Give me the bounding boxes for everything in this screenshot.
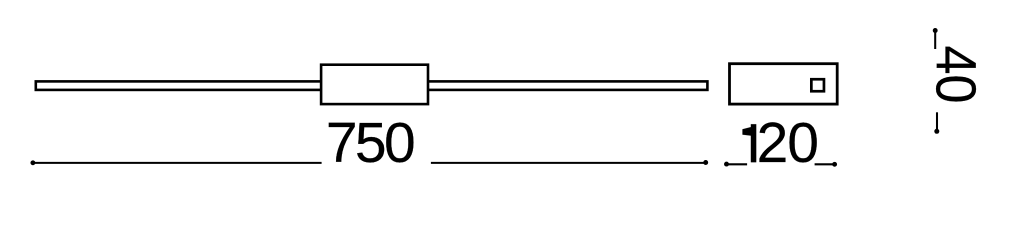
tube body (long thin bar, front view): [36, 81, 708, 90]
end-view rectangle: [730, 64, 838, 104]
dimension 750: left line segment: [33, 162, 322, 164]
dimension 120: right line segment: [815, 163, 835, 165]
dimension 120: left end dot: [724, 162, 729, 167]
dimension 40: top end dot: [933, 28, 938, 33]
svg-text:750: 750: [326, 111, 416, 175]
svg-text:20: 20: [757, 111, 819, 175]
dimension 40: bottom end dot: [934, 129, 939, 134]
small square (tube cross-section in end view): [811, 79, 824, 91]
dimension 40: bottom line segment: [936, 112, 938, 131]
dimension 750: right end dot: [703, 160, 708, 165]
central mount box: [321, 65, 428, 104]
dimension 40: top line segment: [934, 31, 936, 50]
svg-text:40: 40: [924, 45, 989, 103]
dimension 750: left end dot: [30, 160, 35, 165]
dimension 120: right end dot: [832, 162, 837, 167]
dimension 750: right line segment: [431, 162, 706, 164]
dimension 120: digit 1 (custom no-foot glyph): [743, 124, 757, 162]
dimension 120: left line segment: [727, 163, 748, 165]
